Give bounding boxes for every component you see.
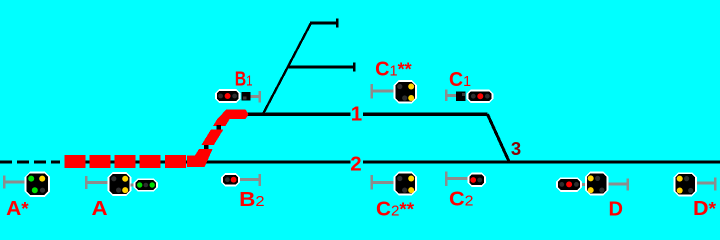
signal C1** head (yellow/yellow) [394,80,418,104]
wire: top siding stub [310,22,337,25]
wire: point 3 diagonal track1->track2 [488,114,510,161]
svg-text:A: A [92,197,108,220]
svg-text:D: D [609,197,624,220]
signal B1 shunt box [242,92,251,101]
signal C2 head (red lit) [468,173,487,188]
signal D* mast pole [697,178,717,191]
wire: track 1 line with gap for label [246,113,488,116]
signal C1 head (red lit) [467,90,494,104]
svg-text:A*: A* [6,197,29,220]
route indication: elbow bottom piece [187,149,213,167]
route indication: diagonal middle dash [201,129,223,145]
connector between signal D heads [581,183,586,186]
signal C1** mast pole [371,84,394,99]
end-of-track marker middle siding [353,63,355,72]
wire: track 2 main line [64,160,720,163]
wire: track 2 dashed approach line (left edge) [0,160,60,163]
connector between signal A heads [131,184,135,187]
signal A head (yellow/yellow) [108,172,132,196]
signal B2 mast pole [240,174,261,186]
signal C1 shunt box [456,91,466,101]
signal B1 head (red lit) [215,89,241,103]
route indication: red dashes on track 2 [64,155,85,168]
point blade black dash in gap 1 [216,125,221,129]
wire: ladder diagonal to sidings [264,23,312,113]
signal A distant head (green/green) [134,178,159,191]
signal D head (yellow/yellow) [585,172,609,196]
signal B1 mast pole [251,91,262,103]
svg-text:2: 2 [350,152,361,175]
signal C2** head (yellow/yellow) [394,172,418,196]
signal D* head (yellow/yellow) [674,172,698,196]
signal C1 mast pole [445,90,456,102]
signal C2** mast pole [371,175,394,190]
end-of-track marker top siding [336,19,338,28]
point blade black dash in gap 2 [204,145,208,149]
svg-text:3: 3 [511,138,521,159]
signal A* mast pole [3,176,25,189]
signal D distant head (red lit) [556,177,582,192]
signal A mast pole [85,176,109,189]
signal A* head (green/yellow/green) [25,172,51,198]
svg-text:D*: D* [693,197,717,220]
route indication: diagonal top dash [213,119,230,126]
svg-text:1: 1 [351,103,362,126]
signal C2 mast pole [445,172,468,187]
signal D mast pole [608,179,629,191]
wire: middle siding stub [288,66,355,69]
signal B2 head (red lit) [221,173,240,187]
route indication: top horizontal arrow piece [217,110,248,120]
